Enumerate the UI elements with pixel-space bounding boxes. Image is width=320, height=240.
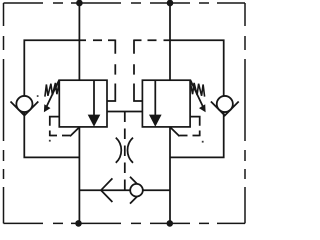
wire: left pilot dashed vertical xyxy=(114,40,116,75)
V1 spring (adjustable) xyxy=(45,82,59,97)
V1 flow path arrow xyxy=(93,80,95,116)
wire: left pilot solid end into left valve right side xyxy=(107,84,115,102)
wire: right pilot dashed vertical xyxy=(133,40,135,75)
V2 spring (adjustable) xyxy=(190,82,204,97)
counterbalance valve V1 (left) envelope xyxy=(59,80,107,127)
check valve CV2 (right) ball xyxy=(217,96,233,112)
V2 pilot loop (dashed) from right side to bottom port xyxy=(190,117,200,126)
enclosure dashed border: left edge xyxy=(3,3,5,223)
check valve CV2 (right) seat xyxy=(211,102,239,116)
enclosure dashed border: right edge xyxy=(244,3,246,223)
wire: upper-left horizontal solid (y=40) xyxy=(24,40,86,96)
node: bottom-left junction dot xyxy=(75,220,82,227)
node: bottom-right junction dot xyxy=(167,220,174,227)
stray dash fragment xyxy=(202,141,204,143)
counterbalance valve V2 (right) envelope xyxy=(142,80,190,127)
V1 adjustment arrow xyxy=(46,80,59,108)
V1 pilot loop (dashed) from left side to bottom port xyxy=(50,117,60,126)
enclosure dashed border: bottom edge xyxy=(4,222,246,224)
wire: left branch lower vertical + horizontal to main line xyxy=(24,96,79,157)
check valve CV3 (bottom) seat xyxy=(130,177,143,204)
wire: center pilot dashed vertical xyxy=(124,112,126,191)
wire: upper-right horizontal solid (y=40) xyxy=(164,40,224,96)
orifice (restrictor) on center pilot line xyxy=(116,138,121,163)
wire: right main vertical lower xyxy=(169,127,171,223)
wire: right branch lower vertical + horizontal to main line xyxy=(170,96,224,157)
wire: left main vertical lower xyxy=(78,127,80,223)
V2 adjustment arrow xyxy=(190,80,203,108)
flow chevron on bottom line xyxy=(101,178,112,202)
wire: upper-left pilot dashed to x=115.3 xyxy=(93,39,115,41)
V2 flow path arrow xyxy=(154,80,156,116)
check valve CV1 (left) ball xyxy=(16,96,32,112)
wire: right pilot solid end into right valve left side xyxy=(134,84,142,102)
stray dash fragment xyxy=(37,95,39,97)
check valve CV1 (left) seat xyxy=(11,102,39,116)
node: top-left junction dot xyxy=(76,0,83,6)
wire: right main vertical upper xyxy=(169,3,171,80)
enclosure dashed border: top edge xyxy=(4,2,246,4)
wire: inter-valve connector xyxy=(107,111,142,113)
wire: upper-right pilot dashed from x=134 xyxy=(134,39,157,41)
wire: bottom cross line xyxy=(79,189,170,191)
wire: left main vertical upper xyxy=(78,3,80,80)
node: top-right junction dot xyxy=(167,0,174,6)
check valve CV3 (bottom) ball xyxy=(130,184,143,197)
